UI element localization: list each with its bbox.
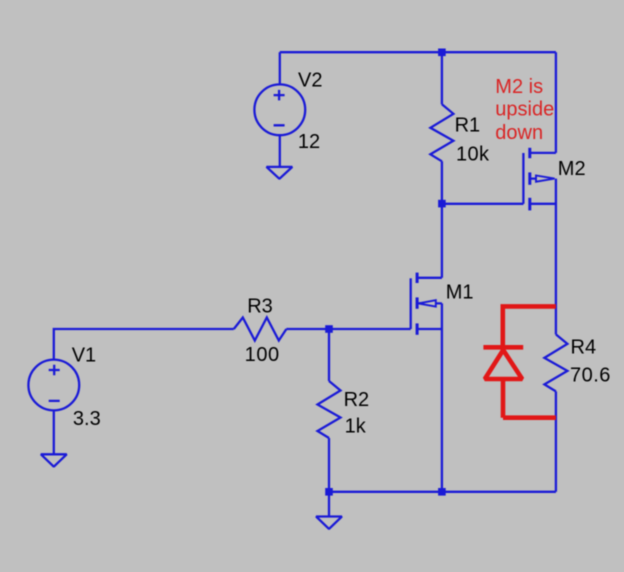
- resistor R4: [544, 334, 567, 391]
- svg-text:M2 is: M2 is: [495, 76, 543, 98]
- wire top rail: [280, 51, 556, 53]
- svg-text:down: down: [495, 122, 543, 144]
- wire R3 to M1 gate: [286, 328, 410, 330]
- svg-text:10k: 10k: [456, 144, 490, 166]
- svg-text:R2: R2: [344, 389, 370, 411]
- wire M2 top to rail: [555, 52, 557, 153]
- junction node top rail: [438, 49, 446, 57]
- wire bottom rail: [329, 491, 556, 493]
- svg-text:1k: 1k: [345, 416, 367, 438]
- junction node M2 gate: [438, 200, 446, 208]
- svg-text:upside: upside: [495, 99, 554, 121]
- svg-text:M2: M2: [558, 158, 586, 180]
- svg-text:R4: R4: [571, 337, 597, 359]
- diode D1 (red, upside down): [483, 306, 556, 417]
- svg-text:R3: R3: [247, 296, 273, 318]
- ground (below V2): [267, 167, 293, 179]
- wire V2 top stem: [279, 52, 281, 84]
- transistor M1 (nmos): [411, 273, 442, 335]
- ground (bottom): [316, 517, 342, 529]
- wire V1 stem: [54, 329, 234, 360]
- voltage source V1: [28, 360, 79, 411]
- wire R1 branch vertical: [441, 52, 443, 104]
- wire R2 bottom: [328, 438, 330, 492]
- wire M2 bottom down right side: [555, 179, 557, 335]
- junction node bottom M1 source: [438, 488, 446, 496]
- svg-text:3.3: 3.3: [73, 408, 101, 430]
- wire bottom ground stub: [328, 492, 330, 517]
- ground (below V1): [41, 454, 67, 466]
- wire M1 source down to bottom rail: [441, 303, 443, 491]
- wire R4 bottom to bottom rail: [555, 391, 557, 491]
- svg-text:V2: V2: [298, 69, 322, 91]
- wire V1 bottom stub: [53, 410, 55, 454]
- svg-text:70.6: 70.6: [570, 364, 611, 386]
- svg-text:R1: R1: [455, 114, 481, 136]
- wire below R1 to junction and M1 drain: [441, 161, 443, 277]
- junction node bottom left: [325, 488, 333, 496]
- resistor R2: [318, 381, 341, 438]
- svg-text:12: 12: [298, 131, 320, 153]
- wire junction to M2 gate: [442, 203, 524, 205]
- svg-text:V1: V1: [72, 345, 96, 367]
- junction node R3/R2/M1 gate: [325, 325, 333, 333]
- transistor M2 (flipped nmos): [523, 148, 556, 211]
- resistor R3: [234, 318, 287, 341]
- annotation text: M2 is upside down: [495, 76, 554, 144]
- wire V2 bottom stub: [279, 135, 281, 167]
- resistor R1: [430, 104, 453, 161]
- voltage source V2: [254, 84, 305, 135]
- svg-text:100: 100: [245, 344, 280, 366]
- wire R2 top: [328, 329, 330, 381]
- svg-text:M1: M1: [446, 282, 474, 304]
